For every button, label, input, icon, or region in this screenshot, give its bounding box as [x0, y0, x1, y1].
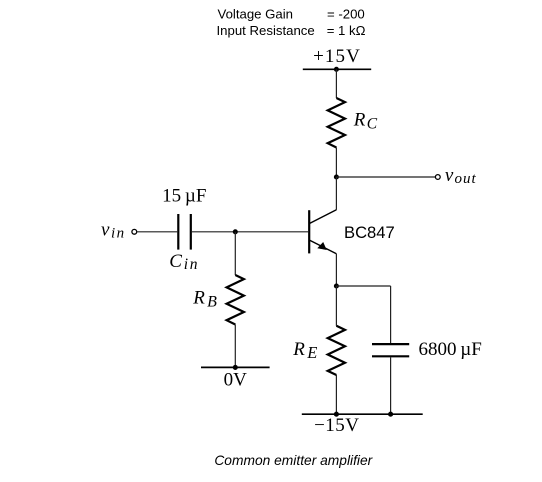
svg-text:RB: RB: [192, 288, 217, 311]
svg-text:0V: 0V: [224, 369, 248, 390]
svg-text:Common emitter amplifier: Common emitter amplifier: [214, 453, 373, 468]
junction node on +15V rail: [334, 67, 339, 72]
resistor RB: [227, 275, 244, 325]
svg-text:BC847: BC847: [344, 223, 395, 242]
node on ground rail: [233, 365, 238, 370]
wire: transistor emitter down to emitter node: [335, 254, 337, 286]
node on -15V rail (CE branch): [388, 412, 393, 417]
svg-text:vout: vout: [445, 165, 477, 187]
svg-text:6800 µF: 6800 µF: [419, 339, 482, 360]
transistor Q1 BC847 (NPN): [309, 210, 336, 254]
node: emitter junction: [334, 283, 339, 288]
wire: emitter node down to RE top: [335, 286, 337, 326]
transistor emitter lead with arrow: [310, 240, 337, 254]
svg-text:Cin: Cin: [169, 251, 199, 273]
node on -15V rail (RE branch): [334, 412, 339, 417]
svg-text:= 1 kΩ: = 1 kΩ: [327, 23, 366, 38]
node: base junction: [233, 229, 238, 234]
power -15V rail: [302, 413, 423, 415]
wire: emitter node to CE branch (horizontal): [336, 285, 390, 287]
wire: vin terminal to Cin left plate: [137, 231, 178, 233]
resistor RE: [328, 326, 345, 375]
svg-text:= -200: = -200: [327, 6, 365, 21]
Cin left plate: [177, 214, 179, 250]
wire: RB bottom to ground rail: [234, 325, 236, 368]
svg-text:vin: vin: [101, 220, 126, 242]
terminal vin (open circle): [132, 229, 137, 234]
ground 0V rail: [201, 366, 270, 368]
wire: collector node down to transistor collector: [335, 177, 337, 210]
transistor base bar: [308, 210, 310, 253]
svg-text:15 µF: 15 µF: [162, 186, 206, 207]
wire: base node down to RB top: [234, 232, 236, 275]
svg-text:Voltage Gain: Voltage Gain: [218, 6, 294, 21]
wire: CE bottom plate to -15V rail: [390, 357, 392, 414]
node: collector junction: [334, 174, 339, 179]
Cin right plate: [190, 214, 192, 250]
svg-text:−15V: −15V: [314, 415, 359, 436]
wire: RC bottom to collector node: [335, 148, 337, 178]
svg-text:RE: RE: [292, 339, 317, 362]
power +15V rail: [303, 68, 371, 70]
wire: +15V rail to RC top: [335, 69, 337, 98]
transistor collector lead: [310, 210, 337, 224]
CE top plate: [372, 343, 409, 345]
svg-text:+15V: +15V: [313, 46, 361, 67]
svg-text:Input Resistance: Input Resistance: [217, 23, 315, 38]
svg-text:RC: RC: [353, 110, 378, 133]
capacitor Cin: [178, 214, 191, 250]
transistor emitter arrowhead: [318, 243, 326, 250]
CE bottom plate: [372, 355, 409, 357]
wire: RE bottom to -15V rail: [335, 375, 337, 414]
capacitor CE: [372, 344, 409, 356]
resistor RC: [328, 98, 345, 148]
wire: CE branch down to CE top plate: [390, 286, 392, 343]
wire: Cin right plate to base node: [192, 231, 308, 233]
wire: collector node to vout terminal: [336, 176, 435, 178]
terminal vout (open circle): [435, 175, 440, 180]
